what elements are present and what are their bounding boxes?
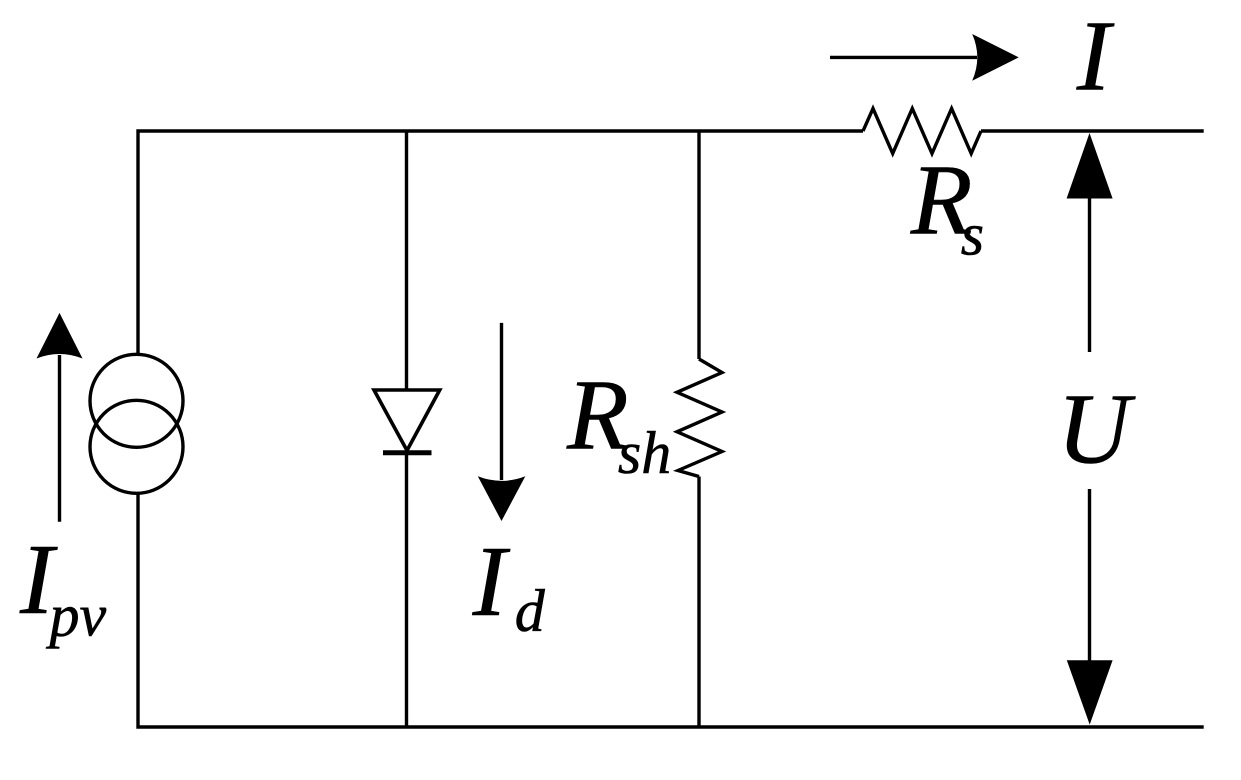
svg-text:I: I [1076, 0, 1115, 111]
svg-text:s: s [961, 201, 984, 267]
current source Ipv circles [90, 354, 183, 447]
arrowhead U down (triangle) [1067, 660, 1113, 724]
wire top-left (left vertical + top rail to Rs) [138, 131, 863, 355]
arrowhead I (right) [972, 34, 1019, 81]
wire Rsh branch lower [697, 477, 700, 728]
wire diode branch upper [405, 131, 408, 390]
wire Rsh branch upper [697, 131, 700, 359]
arrow line Id [500, 323, 503, 480]
svg-text:d: d [515, 578, 546, 644]
resistor Rsh [677, 359, 722, 477]
arrowhead Id (down) [478, 476, 526, 521]
arrowhead Ipv (up) [37, 313, 83, 359]
arrow line I [830, 56, 977, 59]
svg-text:U: U [1057, 373, 1136, 485]
svg-text:pv: pv [46, 583, 107, 649]
resistor Rs [863, 109, 981, 154]
arrow line Ipv [58, 355, 61, 522]
arrow line U down [1088, 489, 1091, 661]
arrowhead U up (triangle) [1067, 133, 1113, 199]
wire bottom rail (with left vertical below source) [138, 493, 1204, 727]
svg-text:I: I [472, 525, 511, 637]
wire top-right [981, 129, 1204, 132]
diode D [374, 390, 440, 451]
wire diode branch lower [405, 453, 408, 727]
arrow line U up [1088, 198, 1091, 352]
svg-text:sh: sh [618, 420, 671, 486]
